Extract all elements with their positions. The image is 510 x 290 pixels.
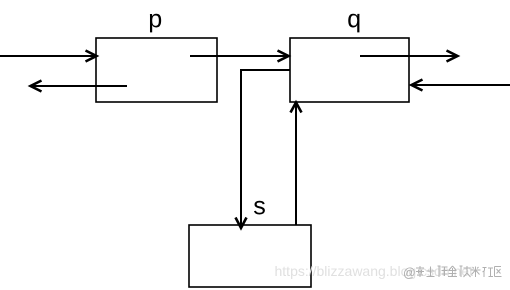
wire: s.next arrow up into bottom of q <box>291 103 302 226</box>
wire: incoming prior-pointer arrow into q from right <box>412 80 510 91</box>
node box p <box>96 38 217 102</box>
label p <box>150 14 161 33</box>
svg-text:@: @ <box>403 266 416 280</box>
node box s <box>189 225 311 287</box>
label q <box>348 14 359 33</box>
wire: incoming next-pointer arrow into p <box>0 51 97 62</box>
watermark community badge <box>403 266 502 280</box>
node box q <box>290 38 409 102</box>
wire: q elbow down to s (arrow into top of s) <box>236 70 291 228</box>
wire: p.prior arrow pointing left <box>31 81 128 92</box>
label s <box>254 201 265 215</box>
wire: q.next arrow pointing right <box>360 51 458 62</box>
wire: p.next arrow to q <box>190 51 289 62</box>
